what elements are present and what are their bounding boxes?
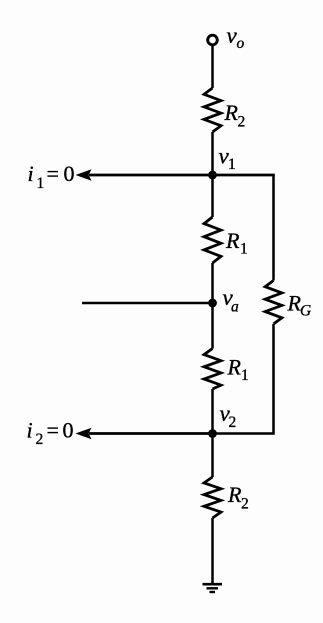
label v1 — [219, 144, 236, 174]
svg-text:R: R — [225, 228, 240, 253]
svg-text:1: 1 — [241, 367, 249, 384]
resistor R2 (top) — [204, 88, 221, 132]
label RG — [287, 291, 312, 320]
wire stub left of va — [82, 302, 213, 305]
svg-text:=: = — [47, 161, 59, 186]
wire R1 to node va — [211, 263, 214, 303]
svg-text:2: 2 — [241, 496, 249, 513]
wire va down to R1 lower — [211, 303, 214, 349]
wire v2 down to R2 bottom — [211, 434, 214, 478]
label i2 = 0 — [27, 418, 74, 449]
arrowhead i2 — [77, 429, 91, 439]
label vo — [227, 23, 245, 52]
svg-text:2: 2 — [229, 414, 237, 431]
svg-text:i: i — [28, 161, 34, 186]
wire node v2 left — [89, 432, 213, 435]
svg-text:1: 1 — [240, 241, 248, 258]
svg-text:o: o — [237, 35, 245, 52]
wire node v1 left — [89, 174, 275, 177]
resistor R1 (lower) — [204, 349, 221, 390]
resistor RG — [265, 281, 282, 325]
svg-text:2: 2 — [238, 114, 246, 131]
svg-text:a: a — [231, 299, 239, 316]
ground — [203, 584, 223, 592]
wire R1 lower to node v2 — [211, 389, 214, 434]
svg-text:0: 0 — [64, 161, 75, 186]
resistor R2 (bottom) — [204, 477, 221, 518]
label va — [223, 285, 240, 316]
label R1 (lower) — [227, 355, 249, 385]
label i1 = 0 — [28, 161, 75, 192]
wire RG to v2 row — [213, 324, 274, 434]
terminal vo — [208, 35, 218, 45]
svg-text:=: = — [47, 418, 59, 443]
node v2 — [208, 429, 217, 438]
wire vo to R2 — [211, 45, 214, 88]
svg-text:R: R — [224, 100, 239, 125]
arrowhead i1 — [77, 170, 91, 180]
svg-text:1: 1 — [228, 156, 236, 173]
label v2 — [220, 401, 237, 431]
svg-text:R: R — [227, 482, 242, 507]
label R2 (bottom) — [227, 482, 249, 513]
svg-text:R: R — [227, 355, 242, 380]
label R1 (upper) — [225, 228, 248, 258]
wire v1 down to R1 — [211, 175, 214, 217]
svg-text:G: G — [300, 303, 311, 320]
svg-text:1: 1 — [37, 175, 45, 192]
node v1 — [208, 171, 217, 180]
wire right branch down from v1 — [272, 175, 275, 281]
resistor R1 (upper) — [204, 217, 221, 263]
node va — [208, 299, 217, 308]
svg-text:2: 2 — [36, 431, 44, 448]
label R2 — [224, 100, 246, 131]
svg-text:i: i — [27, 418, 33, 443]
wire R2 to node v1 — [211, 132, 214, 175]
wire R2 bottom to ground — [211, 518, 214, 584]
svg-text:0: 0 — [63, 418, 74, 443]
